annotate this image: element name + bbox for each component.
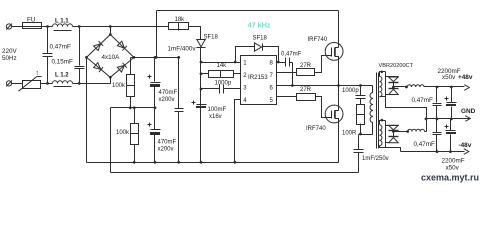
svg-text:0,47mF: 0,47mF bbox=[414, 141, 436, 148]
wire to +48v arrow bbox=[425, 86, 465, 88]
svg-text:x50v: x50v bbox=[442, 74, 456, 81]
capacitor 0,47mF bootstrap bbox=[286, 58, 293, 67]
transformer secondary 1 bbox=[379, 71, 385, 97]
node DC+ caps bbox=[154, 56, 157, 59]
wire -48 rail bbox=[401, 151, 465, 153]
svg-text:100k: 100k bbox=[112, 83, 126, 89]
diode SF18 #1 bbox=[197, 40, 206, 48]
capacitor 1000p (IC) bbox=[201, 85, 241, 94]
transformer core bbox=[377, 73, 379, 149]
wire pin5 bbox=[277, 96, 297, 98]
node: X-cap1 bottom junction bbox=[46, 82, 49, 85]
svg-text:18k: 18k bbox=[175, 17, 186, 23]
resistor 100k #2 bbox=[131, 108, 139, 163]
svg-text:100R: 100R bbox=[342, 130, 357, 136]
input terminal top bbox=[6, 24, 12, 30]
capacitor 1mF/400v bbox=[175, 58, 184, 163]
svg-text:14k: 14k bbox=[217, 63, 228, 69]
wire midpoint bbox=[111, 107, 155, 109]
svg-text:x200v: x200v bbox=[158, 146, 174, 152]
resistor 14k bbox=[201, 71, 241, 78]
IC U1 IR2153 bbox=[241, 56, 277, 105]
svg-text:IRF740: IRF740 bbox=[308, 37, 328, 43]
resistor 18k bbox=[169, 23, 189, 31]
resistor 27R #1 bbox=[297, 69, 315, 76]
svg-text:50Hz: 50Hz bbox=[2, 55, 17, 62]
node: X-cap2 bottom junction bbox=[78, 82, 81, 85]
capacitor 2200mF x50v out1 bbox=[445, 87, 457, 119]
input terminal bottom bbox=[6, 81, 12, 87]
inductor L1.2 bbox=[53, 81, 73, 87]
svg-text:0,47mF: 0,47mF bbox=[412, 97, 434, 104]
capacitor 470mF #2 bbox=[148, 108, 161, 163]
svg-text:27R: 27R bbox=[300, 87, 312, 93]
diodes VBR20200CT upper pair bbox=[386, 72, 399, 98]
svg-text:x50v: x50v bbox=[446, 164, 460, 171]
svg-text:IR2153: IR2153 bbox=[248, 74, 268, 81]
svg-text:L 1.2: L 1.2 bbox=[55, 73, 69, 79]
transformer secondary 2 bbox=[379, 119, 385, 148]
node: X-cap2 top junction bbox=[78, 25, 81, 28]
capacitor 0,47mF X-cap bbox=[43, 27, 53, 84]
diode upper-left bbox=[94, 41, 103, 50]
capacitor 0,47mF out1 bbox=[433, 87, 442, 119]
thermistor t bbox=[19, 76, 42, 91]
wire gate M1 bbox=[315, 56, 332, 73]
wire pin4 COM bbox=[235, 100, 241, 163]
resistor 100R bbox=[357, 105, 365, 135]
svg-text:100k: 100k bbox=[116, 130, 130, 136]
svg-text:VBR20200CT: VBR20200CT bbox=[379, 63, 414, 69]
wire rail1 DC- bbox=[87, 162, 339, 164]
wire AC1 riser bbox=[110, 27, 112, 35]
wire DC+ bbox=[131, 57, 179, 59]
node midpoint junctions bbox=[129, 106, 132, 109]
node rail1 junctions bbox=[133, 161, 136, 164]
svg-text:GND: GND bbox=[461, 108, 476, 115]
svg-text:470mF: 470mF bbox=[159, 90, 178, 96]
svg-text:0,47mF: 0,47mF bbox=[50, 44, 72, 51]
wire Vcc vertical bbox=[200, 48, 202, 163]
resistor 27R #2 bbox=[297, 94, 316, 101]
svg-text:IRF740: IRF740 bbox=[306, 126, 326, 132]
svg-text:1mF/250v: 1mF/250v bbox=[362, 156, 389, 162]
wire bbox=[12, 26, 23, 28]
wire VS rail bbox=[277, 85, 373, 87]
transistor Q2 IRF740 bbox=[325, 86, 343, 163]
capacitor 2200mF x50v out2 bbox=[445, 119, 457, 152]
fuse FU bbox=[23, 23, 42, 29]
diodes VBR20200CT lower pair bbox=[386, 121, 399, 148]
wire midpoint riser to rail2 bbox=[110, 108, 112, 173]
resistor 100k #1 bbox=[127, 58, 135, 108]
inductor output top bbox=[407, 85, 424, 87]
diode SF18 #2 bootstrap bbox=[236, 43, 280, 63]
svg-text:1mF/400v: 1mF/400v bbox=[168, 45, 197, 52]
wire AC2 riser bbox=[110, 78, 112, 84]
bridge rectifier 4x10A bbox=[85, 33, 135, 79]
wire out2 bbox=[394, 131, 408, 133]
capacitor 1000p (snubber) bbox=[356, 86, 366, 105]
svg-text:cxema.myt.ru: cxema.myt.ru bbox=[421, 173, 479, 183]
svg-text:220V: 220V bbox=[2, 48, 18, 55]
wire GND rail bbox=[427, 118, 470, 120]
svg-text:SF18: SF18 bbox=[204, 35, 219, 41]
diode lower-left bbox=[94, 63, 103, 72]
svg-text:1000p: 1000p bbox=[342, 88, 359, 94]
svg-text:470mF: 470mF bbox=[158, 139, 177, 145]
svg-text:-48v: -48v bbox=[459, 142, 472, 149]
wire bbox=[41, 83, 53, 85]
wire GND tap sec1 bbox=[386, 98, 427, 132]
wire pin8 bbox=[277, 62, 286, 64]
svg-text:L 1.1: L 1.1 bbox=[55, 19, 69, 25]
svg-text:4x10A: 4x10A bbox=[102, 54, 121, 61]
wire riser to top border bbox=[156, 11, 158, 58]
svg-text:100mF: 100mF bbox=[208, 107, 227, 113]
svg-text:SF18: SF18 bbox=[253, 35, 268, 41]
inductor L1.1 bbox=[53, 24, 73, 31]
diode upper-right bbox=[117, 41, 126, 50]
svg-text:x16v: x16v bbox=[209, 114, 222, 120]
capacitor 0,15mF X-cap bbox=[75, 27, 85, 84]
svg-text:+48v: +48v bbox=[458, 74, 473, 81]
transformer primary bbox=[370, 86, 373, 135]
capacitor 100mF x16v bbox=[192, 101, 207, 109]
node: bridge AC1 junction bbox=[109, 25, 112, 28]
wire pin7 bbox=[277, 72, 297, 74]
wire +48 rail bbox=[394, 86, 408, 88]
svg-text:0,15mF: 0,15mF bbox=[52, 59, 74, 66]
svg-text:FU: FU bbox=[27, 17, 36, 24]
node: X-cap1 top junction bbox=[46, 25, 49, 28]
wire bbox=[73, 83, 111, 85]
transistor Q1 IRF740 bbox=[325, 11, 343, 86]
svg-text:27R: 27R bbox=[300, 63, 312, 69]
wire bbox=[12, 83, 23, 85]
wire out2 riser to GND rail bbox=[425, 131, 427, 133]
svg-text:x200v: x200v bbox=[159, 97, 175, 103]
capacitor 0,47mF out2 bbox=[433, 119, 442, 152]
capacitor 470mF #1 bbox=[148, 58, 161, 108]
wire bbox=[73, 26, 169, 28]
wire DC- drop bbox=[86, 58, 88, 163]
wire -48 tap bbox=[386, 148, 401, 152]
svg-text:1000p: 1000p bbox=[215, 80, 232, 86]
wire bootstrap to VS bbox=[292, 63, 294, 86]
wire bbox=[41, 26, 53, 28]
inductor output bottom bbox=[408, 129, 425, 131]
wire 18k to SF18 bbox=[189, 27, 201, 40]
svg-text:47 kHz: 47 kHz bbox=[248, 20, 271, 29]
wire top border bbox=[157, 10, 339, 12]
diode lower-right bbox=[117, 63, 126, 72]
wire primary bottom node bbox=[359, 134, 373, 136]
wire pin1 bbox=[201, 62, 241, 64]
capacitor 1mF/250v bbox=[354, 135, 364, 173]
wire gate M2 bbox=[316, 97, 332, 118]
wire rail2 midpoint return bbox=[111, 172, 359, 174]
svg-text:0,47mF: 0,47mF bbox=[281, 51, 302, 57]
